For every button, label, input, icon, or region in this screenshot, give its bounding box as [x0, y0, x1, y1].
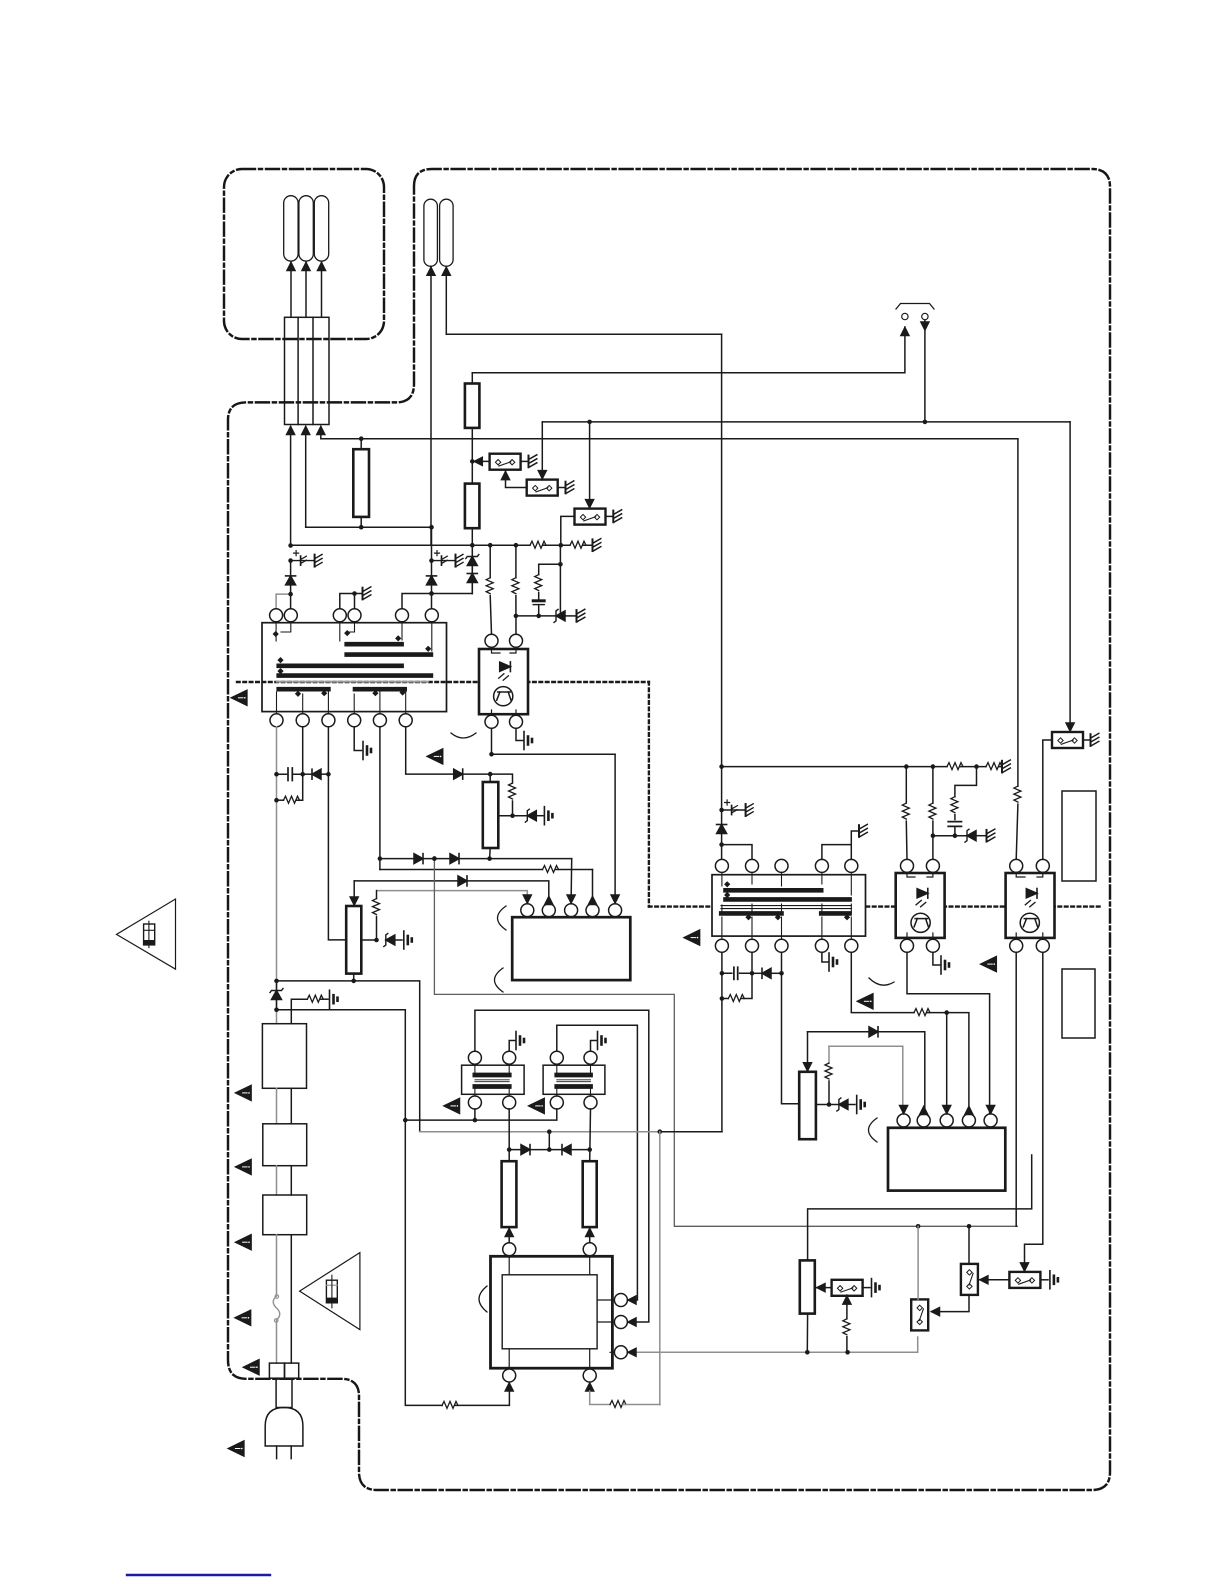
resistor R14 on Y767: [947, 763, 963, 770]
zener D20: [554, 609, 565, 622]
signal ground at SW5: [872, 1279, 880, 1297]
vertical switch SW7: [911, 1299, 928, 1330]
chassis ground at SW2: [566, 481, 574, 494]
IC1 pin circles: [521, 904, 534, 917]
T1 winding bar 5: [279, 687, 329, 692]
wire T2 pin6 down to IC5: [851, 952, 969, 1114]
warning mark near IC3: [981, 957, 997, 972]
connector CN1 pin sleeve 1: [284, 196, 298, 261]
arrows into IC6 bottom pins: [505, 1383, 513, 1391]
wire T2 pin10 down-left: [721, 952, 723, 1131]
chassis ground at SW3: [613, 510, 621, 523]
warning mark left of IC1: [684, 930, 700, 945]
T1 internal stubs top: [276, 622, 432, 651]
diode D6: [450, 854, 459, 864]
signal ground at TF1: [509, 1041, 515, 1052]
T2 internal stubs: [722, 872, 851, 939]
gray wire Y1404 with resistor R27: [590, 1391, 610, 1405]
resistor R8 vertical body: [489, 774, 491, 782]
line filter TF1 pins bottom: [468, 1096, 481, 1109]
signal ground at IC3: [933, 952, 940, 965]
node wire Y616: [516, 615, 556, 617]
coupling arc left of IC5: [869, 1118, 878, 1142]
warning mark above IC5: [857, 994, 873, 1009]
connector CN3 hood: [896, 304, 934, 310]
relay switch SW2: [527, 480, 558, 496]
resistor R5 on Y545: [570, 541, 586, 548]
snubber branch under SW3: [539, 545, 561, 612]
arrows into IC6 right pins: [628, 1296, 636, 1304]
connector outline CN4: [1062, 791, 1096, 881]
opto-coupler IC2 pins top: [485, 634, 498, 647]
wire bus Y334: [446, 333, 721, 335]
footer blue rule: [127, 1574, 270, 1576]
resistor R1: [360, 439, 362, 450]
resistor R12 loop: [277, 799, 284, 801]
wire TB1 mid leg corner: [306, 526, 307, 528]
resistor R17 into opto IC3 pin2: [932, 767, 934, 804]
fuse holder F1: [269, 1363, 284, 1378]
coupling arc under opto IC3: [869, 978, 894, 985]
resistor R10 body: [346, 906, 361, 974]
arrows into TB1 bottom: [287, 427, 295, 435]
resistor R13 to signal ground: [291, 999, 307, 1010]
AC plug prongs: [277, 1446, 292, 1459]
T2 core lines: [721, 906, 852, 909]
gray wire to IC1 pin1: [377, 891, 527, 903]
wire T2 pin7 to signal ground: [822, 952, 828, 962]
IC6 pin stems: [509, 1256, 590, 1275]
TF1 stubs: [475, 1064, 509, 1096]
connector CN1 pin sleeve 3: [314, 196, 328, 261]
coupling arcs left of IC1: [498, 906, 507, 930]
opto IC3 internals: [911, 889, 930, 933]
resistor R3: [465, 484, 480, 529]
capacitor C6: [722, 972, 752, 974]
wire bus Y545: [291, 544, 592, 546]
RC snubber branch: [955, 767, 977, 797]
transformer T1 pins bottom: [270, 714, 283, 727]
signal ground at D16: [857, 1096, 865, 1114]
diode D4: [467, 574, 477, 583]
flex loop on gray lead: [273, 1296, 280, 1320]
box B3: [263, 1195, 307, 1235]
diode D1: [286, 576, 296, 585]
line filter TF2 body: [543, 1065, 605, 1094]
wire into relay box column: [290, 1010, 292, 1024]
signal ground at IC2: [516, 728, 523, 740]
wire pin B down to Y422: [924, 320, 926, 422]
warning mark near T1 left: [231, 690, 247, 705]
wire TB1 mid leg down: [305, 427, 307, 528]
diode D15: [869, 1027, 878, 1037]
wire Y858 drop to IC1 pin3: [570, 859, 573, 903]
T1 internal stubs bottom: [277, 692, 406, 714]
resistor R21 zigzag vertical: [828, 1046, 830, 1063]
wire T2 pin8 down: [782, 952, 800, 1104]
left column gray feed line: [276, 727, 278, 1024]
leads to fuse holder: [276, 1235, 278, 1296]
capacitor C4 electrolytic to chassis ground: [719, 808, 724, 813]
resistor R7 vertical: [515, 545, 517, 578]
wire T2 pin9 down: [751, 952, 753, 973]
T1 winding bar 4: [279, 673, 431, 678]
diode D18: [562, 1145, 571, 1155]
wire TB1 left leg down: [290, 427, 292, 546]
T1 winding bar 3: [279, 663, 402, 668]
wire opto IC4 pin down: [1015, 952, 1017, 1226]
warning marks left column: [236, 1085, 252, 1100]
wire TB1 right leg to bus Y439: [320, 427, 322, 439]
TF2 winding bars: [557, 1073, 591, 1078]
gray bus Y1131: [420, 1131, 660, 1133]
node on Y439 at R1: [359, 436, 364, 441]
dotted separation line: primary/secondary: [237, 682, 1101, 907]
node at R8 side: [498, 815, 527, 817]
connector CN2 pin sleeve 2: [440, 199, 454, 266]
links between boxes: [276, 1088, 278, 1124]
T1 phase dots: [273, 630, 432, 697]
wire T1 pin3 to R10: [328, 727, 346, 940]
bridge T2 pins 1-2: [722, 845, 752, 860]
transformer T1 body: [262, 623, 447, 712]
transformer T1 pins top: [270, 609, 283, 622]
IC1 pin arrows: [523, 895, 531, 903]
diode D5: [414, 854, 423, 864]
IC6 right pin circles: [614, 1294, 627, 1307]
coupling arc right of T1: [451, 733, 476, 738]
IC6 right pin stems: [597, 1300, 614, 1352]
wire IC2 emitter to IC1 pins: [492, 728, 616, 754]
wire T1 pin5 leg: [379, 727, 381, 870]
zener D9: [384, 934, 395, 947]
wire R2-R3 link: [471, 428, 473, 484]
diode D10: [303, 773, 312, 775]
wire X722 feed down: [721, 334, 723, 766]
relay switch SW5: [815, 1287, 832, 1289]
wire T1 pin4 to signal ground: [354, 727, 361, 751]
wire bus Y372: [472, 327, 905, 373]
T2 winding bar 1: [726, 888, 822, 893]
wire IC5 area to R22: [808, 1155, 1032, 1260]
IC6 bottom pin circles: [503, 1369, 516, 1382]
wire CN1-3 to terminal block: [321, 262, 323, 318]
degauss box B1: [262, 1024, 306, 1089]
chassis ground at D20: [577, 609, 585, 622]
warning marks under TF1 TF2: [444, 1098, 460, 1113]
AC plug body: [265, 1408, 303, 1447]
resistor R9 on Y869: [543, 866, 559, 873]
opto-coupler IC4 pins bottom: [1010, 939, 1023, 952]
relay switch SW8: [1009, 1272, 1040, 1288]
AC plug neck: [276, 1379, 292, 1408]
signal ground at TF2: [591, 1041, 597, 1052]
resistor R15 on Y767: [986, 763, 1002, 770]
opto-coupler IC3 pins bottom: [901, 939, 914, 952]
capacitor C2 electrolytic to chassis ground: [429, 558, 434, 563]
node under R20: [816, 1104, 839, 1106]
chassis ground at Y545 end: [593, 539, 601, 552]
wire CN2-1 down: [430, 266, 432, 545]
resistor R24 body: [502, 1161, 517, 1227]
opto-coupler IC3 body: [896, 873, 945, 938]
resistor R25 body: [583, 1161, 597, 1227]
TF1 winding bars: [475, 1073, 509, 1078]
diode row Y1150: [509, 1149, 590, 1151]
relay switch SW1: [472, 460, 489, 462]
gray bus Y1352: [629, 1337, 918, 1352]
connector CN1 pin sleeve 2: [299, 196, 313, 261]
opto-coupler IC4 pins top: [1010, 859, 1023, 872]
wire link pins5-6 of T1: [402, 594, 472, 610]
resistor R20 body: [799, 1072, 816, 1139]
transformer T2 pins top: [715, 859, 728, 872]
wire Y1405 with resistor R26: [441, 1404, 443, 1406]
chassis ground at T1 pins3-4: [363, 587, 371, 600]
chassis ground at SW1: [529, 455, 537, 468]
wire bus Y422: [542, 421, 1070, 423]
wire CN2-2 down to Y334: [445, 266, 447, 334]
IC5 body: [888, 1128, 1005, 1191]
T1 winding bar 6: [355, 687, 405, 692]
wire IC1 pin4 feed: [592, 870, 594, 904]
arrow into R20 top: [807, 1032, 809, 1072]
wire Y869 to IC1 pin4: [380, 869, 593, 871]
gray wire to IC5 pin1: [829, 1046, 903, 1114]
opto-coupler IC4 body: [1006, 873, 1055, 938]
zener diode D3: [466, 555, 479, 566]
connector CN2 pin sleeve 1: [424, 199, 438, 266]
wire R1 bottom to Y527: [360, 517, 362, 527]
diode D8: [458, 876, 467, 886]
zener D11: [270, 989, 283, 1000]
IC6 top pin circles: [503, 1243, 516, 1256]
wire bus Y767: [722, 766, 1002, 768]
vertical switch SW6: [961, 1264, 978, 1295]
signal ground at D19: [544, 807, 552, 825]
resistor R11 zigzag vertical: [376, 891, 378, 899]
warning triangle W2 with fuse symbol: [300, 1253, 360, 1330]
opto-coupler IC4 feed from Y438: [1017, 439, 1019, 786]
capacitor C5: [948, 822, 961, 827]
resistor R4 on Y545: [530, 541, 546, 548]
chassis ground at T2 bridge: [859, 824, 867, 837]
opto IC4 internals: [1020, 889, 1039, 933]
wire to T1 pin1: [276, 594, 291, 609]
IC1 body: [512, 917, 630, 980]
resistor R29 zigzag: [535, 575, 542, 591]
TF2 stubs: [557, 1064, 591, 1096]
T1 core line: [277, 681, 429, 683]
dash-dot border: top-left isolation box: [224, 169, 384, 339]
box B2: [263, 1124, 307, 1166]
T2 winding bar 2: [726, 897, 850, 902]
opto IC2 internals: [492, 648, 517, 654]
wire Y881 to IC1 pin2: [354, 881, 549, 903]
signal ground at SW8: [1050, 1271, 1058, 1289]
IC6 inner body: [502, 1275, 597, 1349]
IC5 pin circles: [897, 1114, 910, 1127]
wire diode bus Y858: [380, 858, 572, 860]
wire loop to IC5 pin2: [808, 1032, 925, 1114]
zener D19: [525, 809, 536, 822]
capacitor C3: [277, 773, 303, 775]
arrow up to connector pin A: [901, 328, 909, 336]
wire IC1 pin5 feed: [614, 754, 616, 903]
wire bus Y527: [307, 526, 432, 528]
wire R3 bottom down: [471, 528, 473, 593]
wire TF legs to diode row: [509, 1109, 590, 1161]
chassis ground at Y767 end: [1002, 760, 1010, 773]
terminal block TB1: [285, 317, 330, 424]
wire T1 pin6 leg to diode D7: [406, 727, 454, 774]
gray leg X660: [659, 1132, 661, 1405]
diode D2: [427, 576, 437, 585]
transformer T2 body: [712, 875, 866, 936]
resistor R23 under SW5: [846, 1295, 848, 1303]
wire bus Y1120: [405, 1109, 557, 1120]
wire IC4 pin2 to SW4: [1043, 740, 1052, 859]
resistor R19 on Y1013: [914, 1009, 930, 1016]
wire CN1-1 to terminal block: [290, 262, 292, 318]
opto-coupler IC2 pins bottom: [485, 715, 498, 728]
gray bus from Y858 down and around: [434, 859, 1017, 1227]
node and wire Y1010: [274, 1008, 279, 1013]
connector outline CN5: [1062, 969, 1095, 1038]
connector CN3 pin A: [902, 313, 908, 319]
T1 winding bar 1: [347, 642, 402, 647]
resistor R18 loop: [722, 998, 728, 1000]
T2 phase dots: [724, 881, 850, 920]
line filter TF2 pins bottom: [550, 1096, 563, 1109]
wire TF1 top loop to IC6: [475, 1010, 649, 1322]
opto-coupler IC2 body: [479, 649, 528, 714]
relay switch SW3: [575, 509, 606, 525]
node R10 right: [361, 939, 376, 941]
signal ground at D9: [404, 931, 412, 949]
wire bus Y439: [321, 438, 1018, 440]
wire T1 pin3-4 ground link: [340, 594, 362, 610]
arrow into R10: [353, 881, 355, 906]
line filter TF1 pins top: [468, 1051, 481, 1064]
resistor R16 into opto IC3 pin1: [905, 767, 907, 804]
node and wire Y981: [274, 979, 279, 984]
diode D12: [717, 825, 727, 834]
diode D17: [521, 1145, 530, 1155]
node Y836: [933, 835, 967, 837]
zener D13 to chassis ground: [965, 829, 976, 842]
line filter TF2 pins top: [550, 1051, 563, 1064]
diode D14: [752, 972, 762, 974]
opto-coupler IC3 pins top: [901, 859, 914, 872]
resistor R2 top: [471, 373, 473, 384]
relay switch SW4: [1052, 732, 1083, 748]
IC6 bottom pin stems: [509, 1349, 590, 1369]
wire T1 pin2 leg: [302, 727, 304, 774]
wire CN1-2 to terminal block: [305, 262, 307, 318]
IC6 outer body: [491, 1256, 613, 1368]
R24 R25 bottoms to IC6 pins: [508, 1227, 510, 1243]
dash-dot border: main hot/cold region outline: [228, 169, 1110, 1490]
resistor R6 vertical: [489, 545, 491, 578]
line filter TF1 body: [462, 1065, 524, 1094]
wire TF2 top loop to IC6: [557, 1025, 638, 1300]
transformer T2 pins bottom: [715, 939, 728, 952]
warning triangle W1 with fuse symbol: [117, 899, 176, 969]
coupling arc left of IC6: [479, 1286, 487, 1312]
zener D16: [837, 1098, 848, 1111]
T1 winding bar 2: [347, 652, 431, 657]
diode D7: [454, 769, 463, 779]
T2 winding bar 3: [721, 911, 781, 916]
IC5 pin arrows: [900, 1106, 908, 1114]
chassis ground at SW4: [1091, 733, 1099, 746]
resistor R28 zigzag: [509, 783, 516, 799]
capacitor C7: [533, 599, 544, 602]
bridge T2 pins 4-5 with ground: [822, 831, 859, 859]
resistor R22 body: [800, 1260, 815, 1313]
capacitor C1 electrolytic to chassis ground: [288, 558, 293, 563]
connector CN3 pin B: [922, 313, 928, 319]
wire opto IC3 to IC5 pin5: [907, 952, 990, 1114]
warning mark right of T1: [427, 749, 443, 764]
T2 winding bar 4: [821, 911, 849, 916]
